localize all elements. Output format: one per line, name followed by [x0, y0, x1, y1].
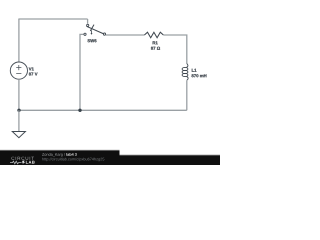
watermark logo bolt	[22, 161, 25, 165]
label R1	[153, 41, 158, 44]
resistor R1	[144, 32, 163, 38]
wire R1 to top-right corner down to L1	[163, 35, 186, 64]
wire L1 to bottom-right corner	[186, 80, 188, 110]
watermark full-width bottom strip	[0, 155, 220, 165]
junction at SW6 branch on bottom rail	[78, 109, 81, 112]
watermark title normal part	[42, 153, 65, 157]
label 87 ohm	[151, 47, 160, 50]
watermark logo LAB	[26, 161, 35, 164]
inductor L1	[182, 64, 188, 81]
wire SW6 left terminal to bottom rail	[80, 34, 83, 110]
watermark title bold part	[66, 153, 76, 156]
label SW6	[87, 39, 96, 42]
watermark url	[42, 158, 104, 162]
voltage source V1	[10, 62, 27, 79]
label L1	[192, 69, 197, 72]
label 870 mH	[192, 74, 207, 77]
junction at V1 / ground node	[17, 109, 20, 112]
wire V1 bottom to bottom rail	[18, 79, 20, 110]
wire junction to ground symbol	[18, 110, 20, 131]
wire bottom rail	[19, 109, 187, 111]
wire V1 top to top-left corner	[18, 19, 20, 62]
watermark logo CIRCUIT	[11, 157, 34, 160]
label V1	[29, 67, 34, 70]
ground	[12, 132, 25, 138]
watermark bar	[0, 151, 120, 166]
watermark logo zigzag	[10, 161, 22, 164]
wire down to SW6 common terminal	[87, 19, 89, 24]
label 87 V	[29, 73, 38, 76]
wire SW6 right terminal to R1	[106, 34, 144, 36]
switch SW6	[84, 24, 106, 35]
wire top rail	[18, 18, 87, 20]
